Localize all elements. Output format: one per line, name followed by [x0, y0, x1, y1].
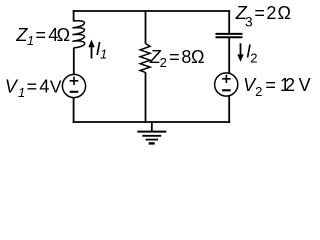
- wire bottom rail: [73, 121, 230, 123]
- wire right branch bottom: [228, 96, 230, 123]
- current arrow I2: [240, 43, 242, 55]
- wire middle branch bottom: [145, 72, 147, 123]
- svg-text:V1=4V: V1=4V: [5, 77, 62, 100]
- ground: [151, 122, 153, 132]
- voltage source V1: [62, 74, 85, 97]
- current arrow I1: [91, 46, 93, 59]
- wire right branch top stub: [228, 10, 230, 33]
- wire top rail: [73, 10, 230, 12]
- voltage source V2: [215, 73, 238, 96]
- wire middle branch top: [145, 10, 147, 44]
- wire left branch bottom: [73, 98, 75, 123]
- inductor Z1: [72, 21, 84, 48]
- svg-text:Z2=8Ω: Z2=8Ω: [149, 47, 205, 70]
- resistor Z2: [140, 44, 150, 73]
- wire right branch middle: [228, 38, 230, 73]
- svg-text:Z1=4Ω: Z1=4Ω: [15, 25, 70, 48]
- wire left branch middle: [73, 48, 75, 75]
- capacitor Z3: [216, 33, 243, 35]
- wire left branch top stub: [73, 10, 75, 21]
